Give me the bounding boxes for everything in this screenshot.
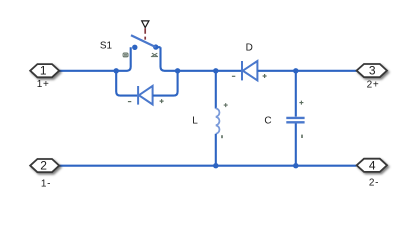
port 2 hexagon bbox=[30, 159, 59, 172]
wire from capacitor to bottom rail bbox=[295, 124, 297, 166]
capacitor plus mark bbox=[299, 101, 303, 105]
svg-text:S1: S1 bbox=[100, 41, 113, 52]
svg-text:1: 1 bbox=[40, 63, 47, 77]
wire diode D to port 3 bbox=[258, 70, 357, 72]
svg-text:4: 4 bbox=[369, 158, 376, 172]
switch S1 blade (open) bbox=[131, 35, 156, 47]
svg-text:L: L bbox=[192, 116, 198, 127]
diode D minus mark bbox=[232, 75, 235, 77]
node L-bottom junction dot bbox=[213, 163, 218, 168]
inductor plus mark bbox=[224, 103, 228, 107]
capacitor minus mark bbox=[301, 135, 303, 138]
node C-top junction dot bbox=[293, 68, 298, 73]
port 1 hexagon bbox=[30, 64, 59, 77]
control dashed line bbox=[144, 28, 146, 39]
wire from node down to inductor bbox=[215, 71, 217, 109]
port 4 hexagon bbox=[357, 159, 387, 172]
body diode plus mark bbox=[160, 99, 164, 103]
svg-text:3: 3 bbox=[369, 63, 376, 77]
inductor minus mark bbox=[221, 135, 223, 138]
inductor L coil bbox=[216, 108, 220, 134]
svg-text:1-: 1- bbox=[41, 178, 51, 189]
wire switch right stem to diode D bbox=[161, 47, 242, 71]
port 3 hexagon bbox=[357, 64, 387, 77]
switch S1 left terminal dot bbox=[132, 45, 137, 50]
capacitor C plates bbox=[286, 118, 304, 122]
svg-text:D: D bbox=[246, 43, 253, 54]
svg-text:1+: 1+ bbox=[37, 79, 50, 90]
node L-top junction dot bbox=[213, 68, 218, 73]
diode D plus mark bbox=[263, 74, 267, 78]
wire top rail left: port1 to switch left stem bbox=[59, 47, 130, 71]
body diode (anti-parallel across S1) bbox=[138, 86, 153, 105]
switch S1 left sub-icon bbox=[123, 53, 128, 57]
switch S1 connector right dot to stem bbox=[156, 46, 161, 48]
wire bottom rail bbox=[59, 165, 356, 167]
diode D bbox=[242, 61, 257, 80]
wire left leg of body-diode loop bbox=[116, 71, 137, 96]
wire right leg of body-diode loop bbox=[153, 71, 178, 96]
node B junction dot bbox=[175, 68, 180, 73]
wire from node down to capacitor bbox=[295, 71, 297, 117]
svg-text:2+: 2+ bbox=[367, 79, 380, 90]
svg-text:2-: 2- bbox=[369, 178, 379, 189]
control input triangle bbox=[142, 21, 149, 28]
node A junction dot bbox=[114, 68, 119, 73]
switch S1 right sub-icon bbox=[151, 53, 158, 56]
svg-text:2: 2 bbox=[40, 159, 47, 173]
node C-bottom junction dot bbox=[293, 163, 298, 168]
switch S1 right terminal dot bbox=[153, 44, 158, 49]
wire from inductor to bottom rail bbox=[215, 134, 217, 166]
svg-text:C: C bbox=[264, 115, 271, 126]
body diode minus mark bbox=[128, 101, 131, 103]
